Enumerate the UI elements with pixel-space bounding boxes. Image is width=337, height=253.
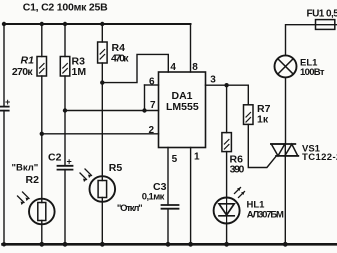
node dots (2, 22, 288, 247)
wire R1 column top (41, 24, 43, 57)
svg-text:1: 1 (194, 152, 200, 163)
node R4 bottom / pin4 (100, 80, 104, 84)
node R1/R2 pin2 (40, 132, 44, 136)
node pin3 junction (224, 83, 228, 87)
node top rail left corner (2, 22, 6, 26)
wire top rail (4, 23, 191, 25)
wire R7 to triac gate (248, 124, 276, 167)
wire R2 to rail (41, 221, 43, 245)
resistor R3 (60, 56, 86, 79)
node rail R2 (39, 242, 44, 247)
wire C2 to rail (64, 170, 66, 244)
capacitor C2 (48, 152, 73, 170)
wire fuse feed / lamp top (286, 25, 316, 56)
svg-text:470к: 470к (111, 53, 129, 65)
node rail HL1 (224, 242, 229, 247)
svg-text:С1, С2 100мк 25В: С1, С2 100мк 25В (23, 2, 108, 14)
wire pin6-pin7 tie (144, 85, 146, 111)
node rail C2 (63, 242, 68, 247)
node rail left corner (2, 242, 6, 246)
wire R3 to C2 (64, 76, 66, 166)
node R1 top (40, 22, 44, 26)
wire node3 to R7 (247, 85, 249, 105)
node R3/C2 pin7 (63, 108, 67, 112)
wire HL1 to rail (226, 224, 228, 245)
wire R6 to HL1 (226, 152, 228, 198)
wire R3 column top (64, 24, 66, 57)
wire left vertical lower (3, 111, 5, 244)
svg-text:LM555: LM555 (166, 101, 199, 113)
node rail R5 (100, 242, 105, 247)
photoresistor R5 (80, 162, 143, 214)
svg-text:6: 6 (149, 77, 155, 88)
LED HL1 (214, 188, 284, 224)
capacitor C1 (0, 97, 10, 111)
resistor R4 (98, 42, 130, 65)
node R4 top (100, 22, 104, 26)
wire node3 to R6 (226, 85, 228, 132)
svg-text:АЛ307БМ: АЛ307БМ (247, 209, 284, 220)
wire pin 2 to R1 node (42, 133, 159, 135)
lamp EL1 (275, 55, 325, 78)
wire bottom rail (3, 243, 337, 246)
wire triac to rail (284, 156, 286, 244)
svg-text:"Откл": "Откл" (117, 203, 143, 214)
wire left vertical upper (3, 24, 5, 106)
wire pin 8 from top rail (190, 24, 192, 72)
capacitor C3 (142, 181, 179, 209)
wire lamp to triac (285, 77, 287, 144)
wire R1 to node (41, 76, 43, 203)
svg-text:2: 2 (149, 125, 155, 136)
resistor R6 (222, 133, 245, 176)
svg-text:5: 5 (172, 154, 178, 165)
node R3 top (63, 22, 67, 26)
wire pin 5 down (167, 148, 169, 206)
svg-text:8: 8 (192, 62, 198, 73)
wire pin 7 to R3 node (65, 110, 159, 112)
node rail C3 (166, 242, 171, 247)
svg-text:100Вт: 100Вт (300, 67, 325, 78)
svg-text:1к: 1к (257, 114, 269, 126)
op-amp timer DA1 LM555 (159, 72, 206, 148)
svg-text:ТС122-25: ТС122-25 (302, 152, 337, 163)
svg-text:+: + (5, 97, 10, 107)
svg-text:FU1 0,5А: FU1 0,5А (307, 9, 337, 20)
wire pin 3 to R7 corner (206, 84, 249, 86)
wire R4 column top (101, 24, 103, 42)
svg-text:7: 7 (150, 100, 156, 111)
svg-text:390: 390 (230, 163, 245, 175)
svg-text:"Вкл": "Вкл" (12, 163, 39, 174)
svg-text:R1: R1 (21, 55, 35, 67)
wire R4 down through crossings to R5 (101, 63, 103, 181)
wire R5 to rail (101, 198, 103, 245)
svg-text:R2: R2 (26, 174, 40, 186)
svg-text:C2: C2 (48, 152, 62, 164)
resistor R1 (12, 55, 47, 79)
fuse FU1 (307, 9, 337, 30)
svg-text:1М: 1М (72, 66, 87, 78)
wire node R4 to pin 4 (step) (102, 54, 168, 82)
node rail triac (283, 242, 288, 247)
svg-text:4: 4 (170, 62, 176, 73)
node pin6/pin7 tie (142, 108, 146, 112)
resistor R7 (244, 103, 271, 126)
svg-text:R5: R5 (109, 162, 123, 174)
svg-text:+: + (67, 157, 72, 167)
node rail pin1 (188, 242, 193, 247)
svg-text:270к: 270к (12, 66, 33, 78)
wire C3 to rail (167, 209, 169, 244)
wire pin 6 stub (145, 84, 159, 86)
photoresistor R2 (12, 163, 55, 225)
wire pin 1 to rail (190, 148, 192, 245)
triac VS1 (271, 144, 337, 164)
svg-text:0,1мк: 0,1мк (142, 191, 165, 202)
svg-text:3: 3 (210, 75, 216, 86)
